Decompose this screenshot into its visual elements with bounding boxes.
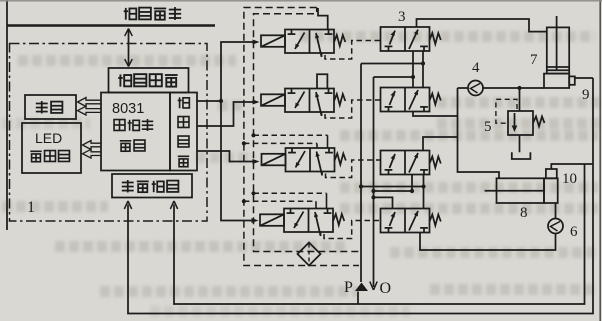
solenoid valve V4 (middle group) (260, 209, 344, 236)
V2 pilot line loop to valve row 2 (325, 100, 380, 118)
check valve 6 poppet (551, 222, 561, 232)
R1 bottom port verticals (412, 51, 414, 88)
cylinder 8 piston rod to the left (485, 190, 544, 192)
svg-text:8: 8 (520, 205, 528, 221)
svg-text:8031: 8031 (112, 101, 144, 117)
V2 bottom port stub (321, 112, 323, 116)
stub from P triangle to line B (357, 292, 359, 305)
cylinder 7 lower chamber (544, 74, 569, 88)
regulator 5 internal arrow (514, 113, 516, 129)
hollow arrows 8031 to LED display (83, 141, 102, 150)
exhaust rail to R3 bottom-left port (374, 175, 413, 192)
svg-text:1: 1 (27, 199, 35, 216)
cylinder 8 body (497, 178, 545, 203)
control wire 2: control channel to solenoid V2 (197, 102, 256, 126)
junction column to check valve 4 and cylinder 8 (458, 88, 500, 178)
pilot rail dashed y201 with junction (242, 199, 246, 203)
figure frame right faint edge (599, 0, 601, 321)
V1 pilot line loop to valve 3 (325, 41, 380, 60)
filter internal dashed line (308, 244, 310, 265)
R4 outlet down to check valve 6 line (420, 233, 556, 251)
figure frame left edge (6, 0, 8, 230)
pilot rail dashed y143 with junction (242, 141, 246, 145)
solenoid valve V1 (middle group) (261, 30, 345, 57)
figure frame top faint band (0, 0, 602, 2)
exhaust rail O to R1 (374, 76, 414, 78)
regulator 5 spring (533, 117, 545, 127)
wire check valve 4 to cylinder 7 (483, 87, 544, 89)
pilot rail dashed y135 with junction (251, 133, 255, 137)
regulator 5 pilot dashed loop (496, 99, 517, 123)
solenoid valve V2 (middle group) (261, 89, 345, 116)
wire to check valve 4 (458, 87, 469, 89)
cylinder 7 body (547, 27, 569, 73)
pressure regulator 5 body (508, 111, 533, 135)
svg-text:7: 7 (530, 52, 538, 68)
svg-text:6: 6 (570, 224, 578, 240)
pilot valve R3 (right group) (381, 151, 441, 175)
wire check valve 6 to cylinder 8 (555, 203, 557, 219)
sensor 10 wire along y164 (551, 164, 593, 169)
R2 outlet to junction column (413, 112, 458, 117)
box LED display (22, 123, 81, 173)
supply rail P to R1 (361, 63, 423, 65)
feedback line A from sensor 9 to detection channel (128, 78, 593, 314)
R3 top port to supply junction column (423, 137, 458, 151)
outer dashed enclosure top-right corner stub (316, 8, 318, 13)
bleed-through text rows (decorative background) (300, 31, 595, 52)
outer dashed enclosure of pilot valve group (244, 8, 359, 266)
check valve 4 poppet (471, 84, 481, 94)
svg-text:P: P (344, 279, 353, 296)
V3 bottom port stub (321, 172, 323, 176)
R1 outlet line to cylinder 7 (417, 19, 547, 32)
check valve 6 circle (548, 219, 563, 234)
V3 pilot line loop to valve row 3 (326, 160, 381, 178)
hollow arrows 8031 to keyboard (78, 98, 102, 159)
pilot valve R2 (right group) (381, 88, 441, 112)
box 检测通道 detection channel (112, 174, 192, 198)
exhaust column O with arrow (373, 77, 375, 287)
vertical double arrow bus to interface (128, 29, 130, 66)
V1 outlet bracket to dashed box corner (318, 8, 328, 30)
R3 bottom port vertical (423, 175, 425, 209)
cylinder 8 right end block (544, 178, 558, 203)
cylinder 7 piston and rod (556, 16, 558, 70)
V4 top port stubs to pilot rails (315, 201, 317, 208)
svg-text:9: 9 (582, 87, 590, 103)
supply rail to R3/R4 (361, 186, 424, 188)
V4 pilot line loop to valve row 4 (324, 221, 380, 239)
communication bus line 通信总线 (7, 24, 215, 27)
P source triangle (355, 283, 368, 292)
check valve 4 circle (468, 81, 483, 96)
junction to regulator 5 (517, 86, 521, 90)
control wire 3: control channel to solenoid V3 (197, 151, 256, 162)
V2 outlet bridge over top ports (317, 74, 327, 88)
regulator 5 exhaust port (519, 135, 521, 152)
pilot rail dashed y193 with junction (251, 191, 255, 195)
svg-text:10: 10 (562, 171, 577, 187)
solenoid valve V3 (middle group) (262, 148, 346, 175)
sensor block 9 (569, 76, 575, 84)
svg-text:LED: LED (35, 130, 62, 146)
box 通信接口 communication interface (109, 68, 189, 93)
dash-dot box around microcomputer unit 1 (10, 44, 208, 222)
supply column P (360, 64, 362, 283)
inner dashed enclosure of pilot valve group (254, 14, 361, 252)
svg-text:O: O (380, 280, 392, 297)
bus label 通信总线 (124, 7, 181, 20)
V4 bottom port stub (320, 232, 322, 236)
box 8031 MCU system (101, 93, 170, 171)
V1 bottom port stub (321, 53, 323, 57)
box 控制通道 control channel (vertical text) (170, 93, 197, 171)
box 键盘 keyboard (25, 95, 76, 119)
svg-text:5: 5 (484, 119, 492, 135)
control wire 1: control channel to solenoid V1 (197, 42, 256, 101)
sensor block 10 (546, 169, 557, 178)
pilot valve R4 (right group) (381, 209, 441, 233)
pilot valve R1 (right group, item 3) (381, 27, 441, 51)
control wire 4: control channel to solenoid V4 (221, 101, 255, 221)
V3 top port stubs to pilot rails (316, 143, 318, 148)
junction control wires 1/4 (219, 99, 223, 103)
feedback line B from sensor 10 to detection channel (174, 164, 585, 304)
svg-text:4: 4 (472, 60, 480, 76)
air filter diamond (298, 243, 321, 266)
sensor 9 wire to feedback column (575, 77, 593, 79)
exhaust rail to R4 top-left port (374, 197, 393, 208)
svg-text:3: 3 (398, 9, 406, 25)
